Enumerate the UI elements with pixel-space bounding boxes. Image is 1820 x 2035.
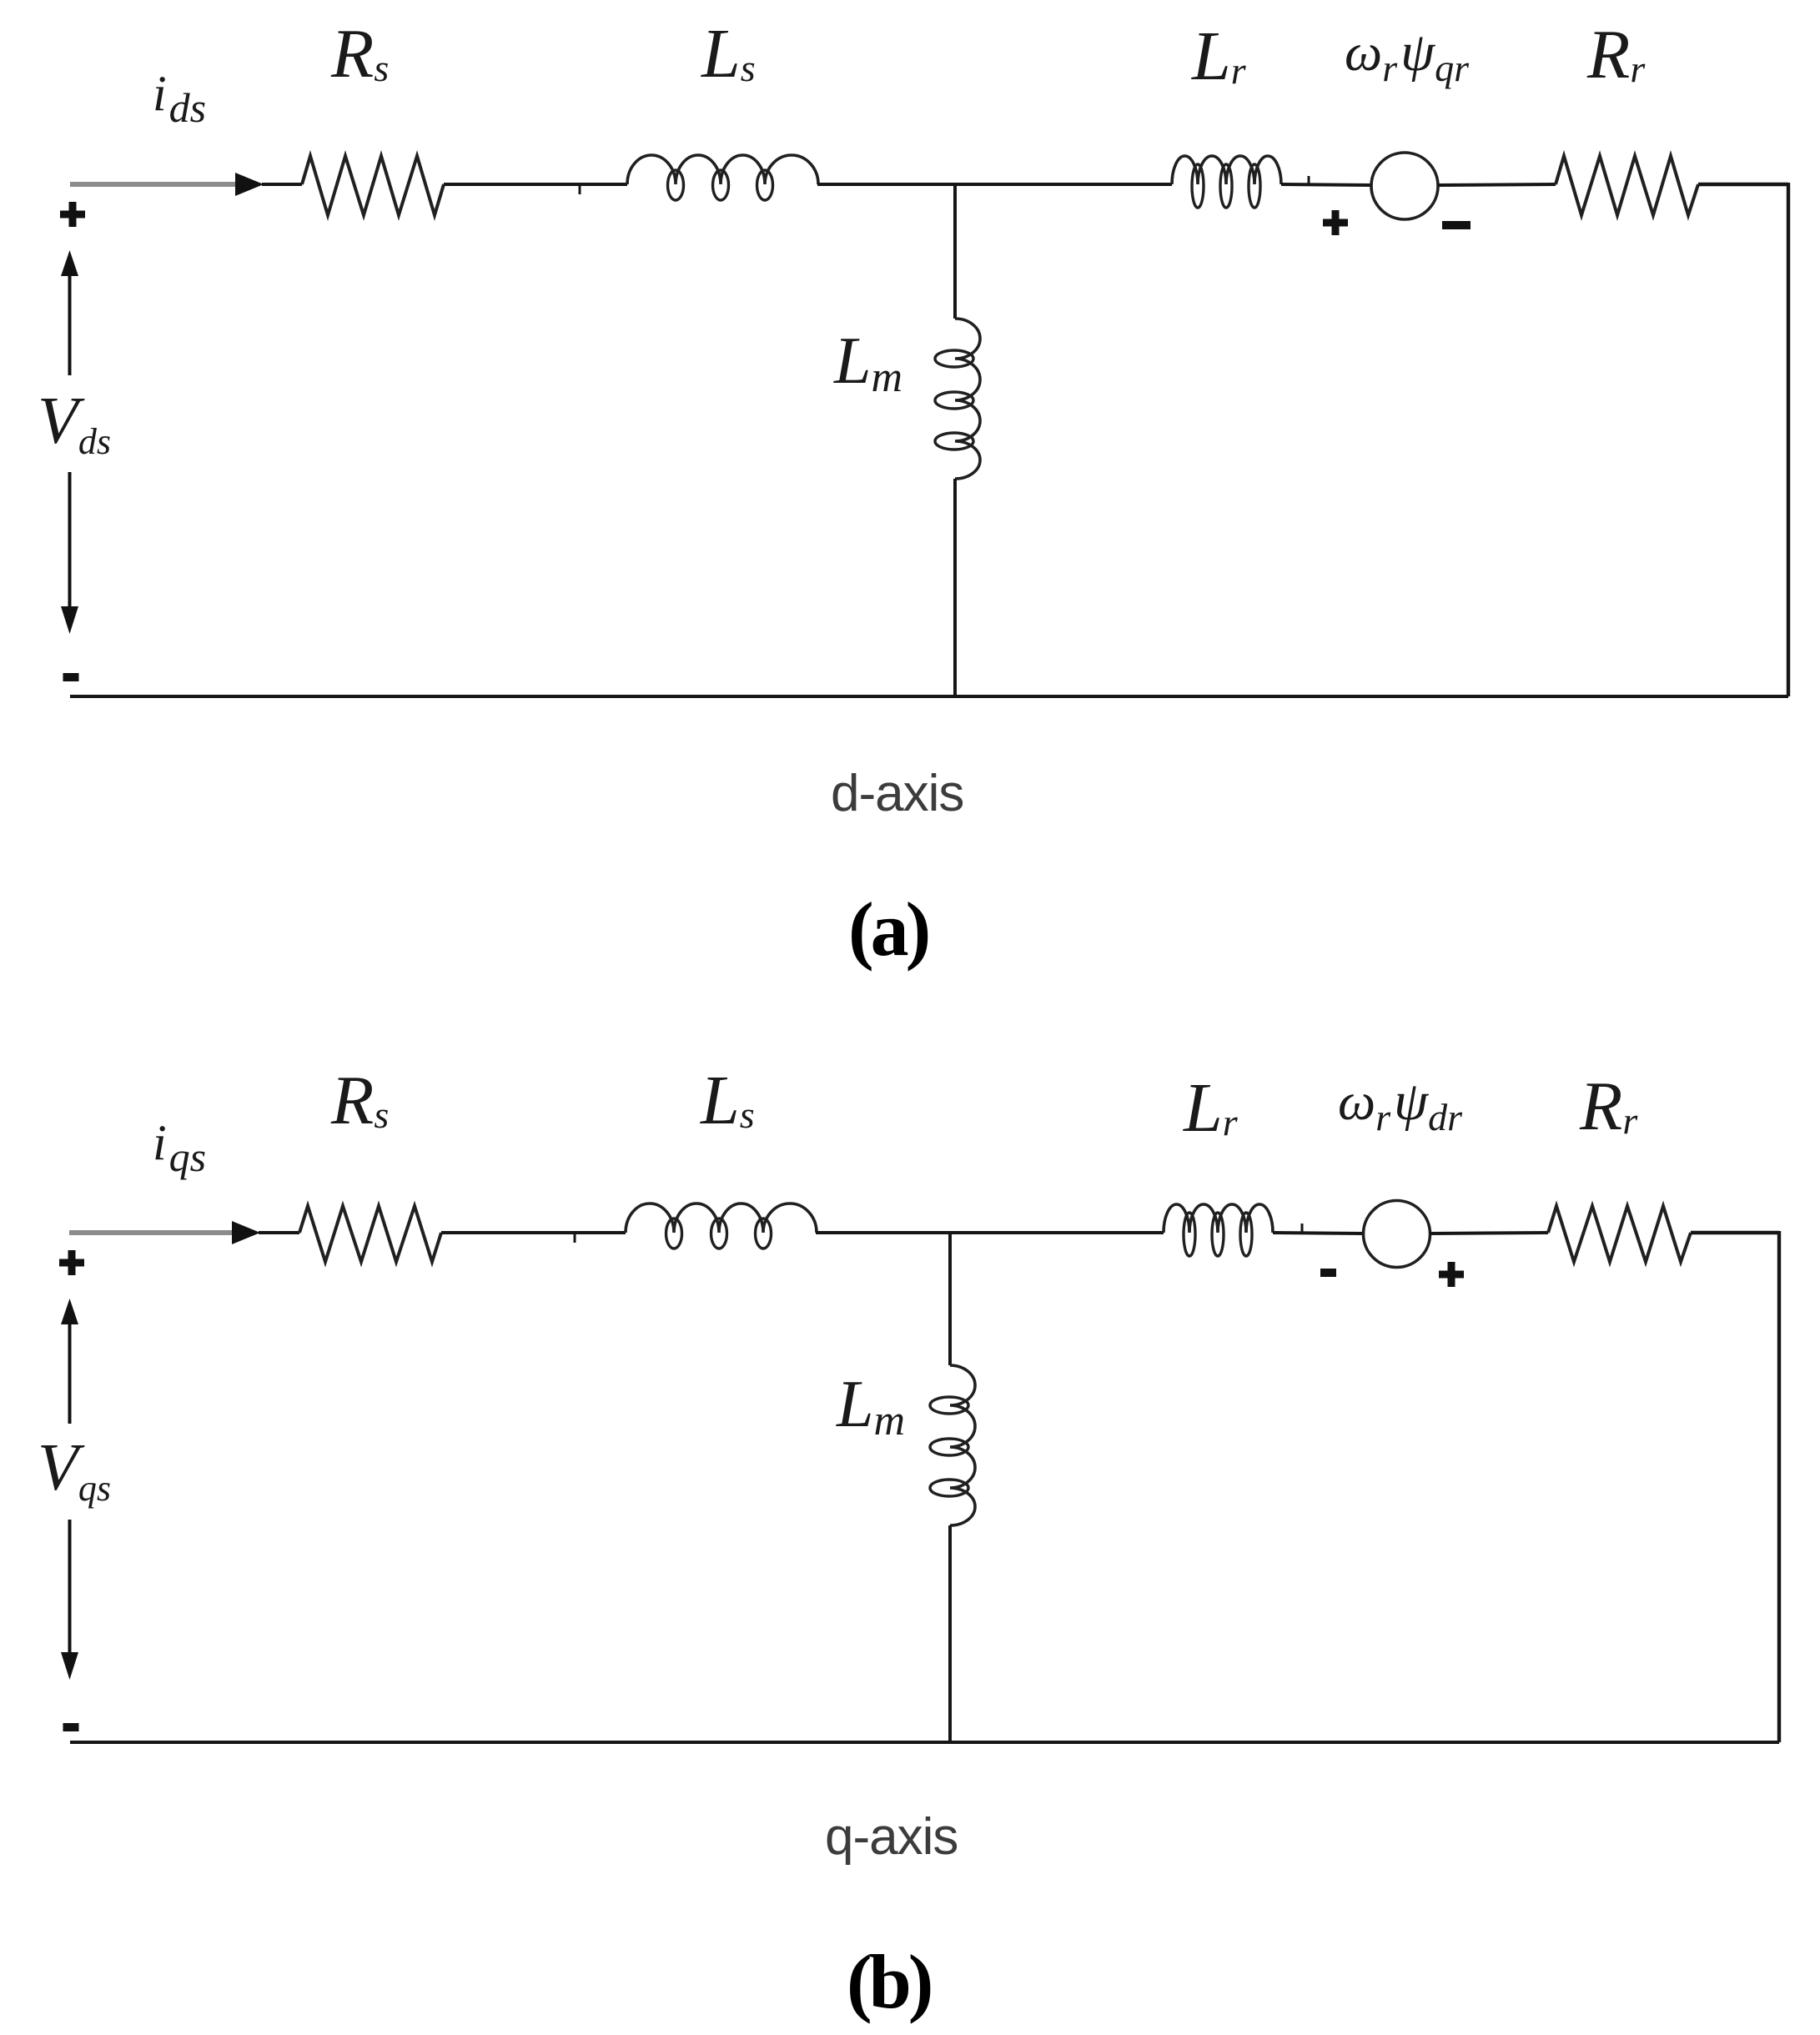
- wire Rr to right corner: [1698, 183, 1788, 186]
- wire right side vertical (d-axis): [1787, 183, 1790, 696]
- svg-text:q-axis: q-axis: [825, 1808, 958, 1866]
- Vds arrow up: [68, 274, 72, 375]
- wire Lr to source: [1281, 184, 1372, 185]
- wire Ls to Lr through node: [817, 183, 1172, 186]
- voltage source circle (speed emf, q-axis): [1364, 1201, 1430, 1268]
- Vqs arrow down: [68, 1520, 72, 1655]
- svg-text:Ls: Ls: [700, 1062, 755, 1139]
- wire arrow to Rs: [262, 183, 302, 186]
- resistor Rr (q-axis): [1548, 1206, 1691, 1262]
- inductor Lr (q-axis): [1164, 1204, 1273, 1233]
- voltage source circle (speed emf, d-axis): [1371, 153, 1438, 219]
- plus sign of source (d-axis): [1323, 210, 1348, 235]
- wire Lm to bottom (q-axis): [948, 1525, 952, 1742]
- svg-text:Lr: Lr: [1191, 18, 1247, 95]
- inductor Ls (q-axis): [626, 1203, 817, 1233]
- inductor Lm (d-axis): [955, 319, 980, 479]
- wire Rs to Ls (q-axis): [441, 1231, 626, 1234]
- svg-text:(b): (b): [847, 1939, 931, 2024]
- inductor Lm (q-axis): [950, 1365, 975, 1525]
- svg-text:Rs: Rs: [330, 15, 389, 93]
- svg-text:d-axis: d-axis: [831, 765, 963, 822]
- wire Ls to Lr through node (q-axis): [816, 1231, 1164, 1234]
- svg-text:Vqs: Vqs: [38, 1431, 111, 1509]
- wire node to Lm (q-axis): [948, 1233, 952, 1365]
- inductor Ls (d-axis): [627, 155, 818, 184]
- wire bottom return (d-axis): [70, 695, 1788, 698]
- svg-text:iqs: iqs: [153, 1115, 206, 1180]
- wire Lm to bottom: [953, 479, 957, 696]
- svg-text:Lr: Lr: [1183, 1069, 1239, 1147]
- wire node to Lm: [953, 184, 957, 319]
- tick mark above wire (q-axis): [1301, 1224, 1304, 1232]
- resistor Rs (d-axis): [302, 156, 444, 215]
- svg-text:Lm: Lm: [833, 324, 902, 401]
- plus sign of source (q-axis): [1439, 1262, 1464, 1287]
- svg-text:Vds: Vds: [38, 384, 111, 462]
- wire arrow to Rs (q-axis): [259, 1231, 299, 1234]
- current arrow i_ds (black head): [235, 173, 264, 196]
- wire Rs to Ls: [444, 183, 627, 186]
- minus sign of source (q-axis): [1320, 1269, 1336, 1277]
- svg-text:Rr: Rr: [1579, 1068, 1638, 1145]
- tick mark below wire (q-axis): [574, 1234, 576, 1243]
- svg-text:Rr: Rr: [1586, 16, 1646, 93]
- wire source to Rr (q-axis): [1430, 1233, 1548, 1234]
- resistor Rr (d-axis): [1556, 156, 1698, 215]
- inductor Lr (d-axis): [1172, 156, 1281, 184]
- wire source to Rr: [1438, 184, 1556, 185]
- wire right side vertical (q-axis): [1777, 1231, 1781, 1742]
- current arrow i_ds (gray shaft): [70, 182, 235, 187]
- wire bottom return (q-axis): [70, 1741, 1779, 1744]
- tick mark below wire: [579, 186, 581, 194]
- tick mark above wire: [1308, 176, 1310, 184]
- svg-text:ωrψqr: ωrψqr: [1345, 22, 1470, 89]
- Vqs arrow up: [68, 1322, 72, 1424]
- wire Lr to source (q-axis): [1273, 1233, 1364, 1234]
- current arrow i_qs (black head): [232, 1221, 260, 1244]
- svg-text:Ls: Ls: [701, 15, 756, 93]
- minus sign of port Vqs: [63, 1723, 79, 1731]
- svg-text:(a): (a): [848, 887, 928, 972]
- resistor Rs (q-axis): [299, 1206, 441, 1262]
- svg-text:Rs: Rs: [330, 1062, 389, 1139]
- plus sign of port Vds: [60, 202, 85, 227]
- minus sign of port Vds: [63, 673, 79, 681]
- wire Rr to right corner (q-axis): [1691, 1231, 1779, 1234]
- Vds arrow down: [68, 472, 72, 609]
- svg-text:ωrψdr: ωrψdr: [1338, 1071, 1463, 1138]
- svg-text:ids: ids: [153, 66, 206, 131]
- plus sign of port Vqs: [59, 1250, 84, 1275]
- minus sign of source (d-axis): [1442, 221, 1471, 229]
- current arrow i_qs (gray shaft): [69, 1230, 232, 1235]
- svg-text:Lm: Lm: [836, 1368, 905, 1445]
